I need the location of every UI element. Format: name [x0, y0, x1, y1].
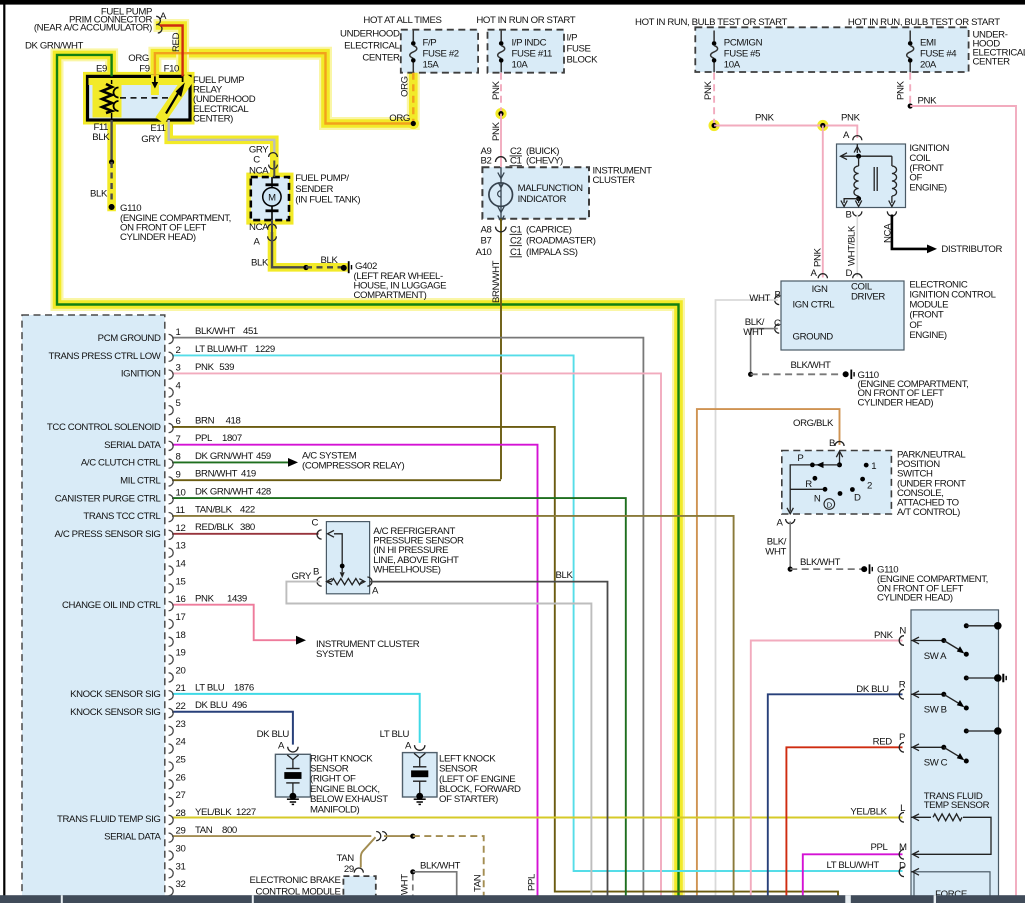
PCM pin 18 — [169, 637, 174, 646]
svg-text:13: 13 — [176, 541, 186, 552]
wire ORG dashed fuse F/P 2 leg — [412, 73, 414, 124]
electronic brake control module box — [343, 876, 375, 903]
malfunction indicator lamp DS1 — [489, 183, 513, 207]
right knock sensor pin A arc — [288, 747, 298, 752]
svg-text:PCM/IGN: PCM/IGN — [724, 38, 763, 49]
svg-text:ENGINE): ENGINE) — [909, 182, 947, 193]
svg-text:22: 22 — [176, 701, 186, 712]
right knock sensor internals — [287, 755, 298, 760]
svg-text:E9: E9 — [96, 64, 107, 75]
PCM pin 12 — [169, 530, 174, 539]
svg-text:GRY: GRY — [292, 571, 312, 582]
svg-text:PNK: PNK — [491, 121, 502, 141]
svg-text:P: P — [797, 453, 803, 464]
wire pin29 TAN 800 — [172, 835, 371, 837]
wire WHT/BLK coil B to EICM D — [856, 215, 858, 277]
park/neutral switch pin A arc — [786, 519, 795, 524]
svg-text:21: 21 — [176, 683, 186, 694]
wire pin22 DK BLU 496 — [172, 712, 293, 745]
svg-text:TRANS FLUID TEMP SIG: TRANS FLUID TEMP SIG — [57, 814, 160, 825]
underhood electrical center box fuses 5 and 4 — [695, 27, 968, 72]
PCM pin 1 — [169, 334, 174, 343]
PCM pin 4 — [169, 388, 174, 397]
PCM connector box — [22, 315, 165, 903]
wire BLK/WHT EBCM splice — [410, 869, 415, 874]
PCM pin 23 — [169, 726, 174, 735]
svg-text:KNOCK SENSOR SIG: KNOCK SENSOR SIG — [70, 707, 160, 718]
svg-text:I/P: I/P — [567, 33, 578, 44]
svg-text:TCC CONTROL SOLENOID: TCC CONTROL SOLENOID — [47, 422, 161, 433]
svg-text:SERIAL DATA: SERIAL DATA — [104, 440, 161, 451]
svg-text:PNK: PNK — [703, 80, 714, 100]
PCM pin 6 — [169, 423, 174, 432]
svg-text:BLK/WHT: BLK/WHT — [195, 326, 236, 337]
svg-text:C1: C1 — [510, 224, 522, 235]
A/C pressure sensor pin B arc — [317, 577, 322, 586]
ground G110 park neutral — [861, 566, 867, 572]
park/neutral switch internals S1 — [839, 452, 841, 465]
svg-text:3: 3 — [176, 363, 181, 374]
PCM pin 27 — [169, 797, 174, 806]
highlight relay F11 ground path — [107, 120, 116, 207]
svg-text:23: 23 — [176, 719, 186, 730]
park/neutral position switch box — [782, 451, 892, 515]
I/P fuse block box FUSE 11 — [488, 30, 565, 73]
svg-text:FUSE #11: FUSE #11 — [512, 49, 553, 60]
svg-text:R: R — [805, 479, 812, 490]
EICM pin B arc — [775, 295, 780, 304]
svg-text:PNK: PNK — [491, 80, 502, 100]
svg-text:PNK: PNK — [195, 362, 215, 373]
svg-text:2: 2 — [867, 480, 872, 491]
svg-text:WHT/BLK: WHT/BLK — [847, 225, 858, 266]
svg-text:1229: 1229 — [255, 344, 275, 355]
svg-text:C1: C1 — [510, 156, 522, 167]
svg-text:422: 422 — [240, 504, 255, 515]
A/C pressure sensor R2 internals — [328, 530, 335, 537]
svg-text:18: 18 — [176, 630, 186, 641]
wire TAN to EBCM pin 29 — [361, 837, 376, 867]
svg-text:NCA: NCA — [883, 223, 894, 243]
svg-text:WHT: WHT — [749, 293, 770, 304]
svg-text:F10: F10 — [164, 64, 179, 75]
svg-text:NCA: NCA — [249, 165, 269, 176]
svg-text:428: 428 — [256, 486, 271, 497]
svg-text:PNK: PNK — [918, 96, 938, 107]
svg-text:B: B — [313, 567, 319, 578]
PCM pin 19 — [169, 655, 174, 664]
svg-text:ELECTRONIC BRAKE: ELECTRONIC BRAKE — [250, 875, 341, 886]
svg-text:M: M — [899, 842, 907, 853]
PCM pin 13 — [169, 548, 174, 557]
svg-text:380: 380 — [240, 522, 255, 533]
svg-text:SW B: SW B — [924, 705, 947, 716]
relay switch blade to F10 — [166, 90, 180, 114]
switch SW B — [911, 693, 944, 695]
svg-text:TAN/BLK: TAN/BLK — [195, 504, 233, 515]
svg-text:IGN: IGN — [812, 284, 828, 295]
highlight ORG wire path — [155, 53, 413, 123]
svg-text:OF STARTER): OF STARTER) — [439, 794, 498, 805]
svg-text:29: 29 — [176, 826, 186, 837]
svg-text:539: 539 — [219, 362, 234, 373]
svg-text:N: N — [899, 626, 906, 637]
svg-text:FUSE #2: FUSE #2 — [423, 49, 459, 60]
svg-text:IGN CTRL: IGN CTRL — [793, 299, 836, 310]
svg-text:MIL CTRL: MIL CTRL — [120, 475, 161, 486]
svg-text:A: A — [405, 740, 412, 751]
svg-text:INDICATOR: INDICATOR — [518, 194, 567, 205]
svg-text:29: 29 — [344, 864, 354, 875]
wire pin28 YEL/BLK 1227 — [172, 817, 903, 819]
svg-text:A/C CLUTCH CTRL: A/C CLUTCH CTRL — [81, 458, 162, 469]
connector C2/C1 arcs buick-chevy — [496, 157, 507, 162]
relay switch contact from F9 — [154, 76, 156, 83]
svg-text:(COMPRESSOR RELAY): (COMPRESSOR RELAY) — [302, 460, 404, 471]
fuel pump motor M1 — [263, 188, 281, 206]
svg-text:FUSE #5: FUSE #5 — [724, 49, 760, 60]
wire ORG relay F9 to fuse splice — [155, 53, 413, 123]
svg-text:5: 5 — [176, 398, 181, 409]
svg-text:F/P: F/P — [423, 38, 437, 49]
svg-text:BRN/WHT: BRN/WHT — [491, 260, 502, 303]
svg-text:ORG: ORG — [400, 76, 411, 97]
svg-text:A: A — [810, 268, 817, 279]
wire PNK fuse 4 to right margin run — [910, 106, 1016, 896]
svg-text:A: A — [372, 586, 379, 597]
PCM pin 17 — [169, 619, 174, 628]
svg-text:11: 11 — [176, 505, 185, 516]
svg-text:DK BLU: DK BLU — [195, 700, 228, 711]
highlight DK GRN/WHT fuel pump feed path — [57, 55, 679, 903]
bottom window bar — [0, 895, 1025, 903]
PCM pin 28 — [169, 815, 174, 824]
svg-text:CYLINDER HEAD): CYLINDER HEAD) — [877, 593, 953, 604]
svg-text:PPL: PPL — [195, 433, 213, 444]
svg-text:BLK: BLK — [251, 257, 269, 268]
svg-text:32: 32 — [176, 879, 186, 890]
EICM pin D arc — [853, 274, 862, 279]
svg-text:LT BLU: LT BLU — [380, 729, 410, 740]
svg-text:BLK/WHT: BLK/WHT — [800, 557, 841, 568]
svg-text:BLK: BLK — [90, 189, 108, 200]
svg-text:SERIAL DATA: SERIAL DATA — [104, 832, 161, 843]
left knock sensor internals — [414, 753, 425, 758]
svg-text:8: 8 — [176, 452, 181, 463]
instrument cluster box — [482, 167, 589, 219]
svg-text:D: D — [854, 493, 861, 504]
svg-text:B7: B7 — [481, 236, 492, 247]
svg-text:LT BLU/WHT: LT BLU/WHT — [195, 344, 248, 355]
svg-text:NCA: NCA — [249, 222, 269, 233]
highlight fuel pump relay outline — [88, 76, 191, 120]
svg-text:CLUSTER: CLUSTER — [593, 175, 636, 186]
svg-text:24: 24 — [176, 737, 187, 748]
svg-text:PPL: PPL — [871, 842, 889, 853]
connector arcs fuel pump pin A — [268, 224, 277, 228]
svg-text:COMPARTMENT): COMPARTMENT) — [354, 290, 427, 301]
svg-text:DK GRN/WHT: DK GRN/WHT — [25, 41, 84, 52]
PCM pin 3 — [169, 370, 174, 379]
svg-text:(IN FUEL TANK): (IN FUEL TANK) — [295, 195, 360, 206]
PCM pin 16 — [169, 602, 174, 611]
svg-text:LT BLU: LT BLU — [195, 682, 225, 693]
EICM pin A arc — [818, 274, 827, 279]
svg-text:7: 7 — [176, 434, 181, 445]
fuse EMI FUSE 4 20A — [909, 31, 911, 42]
svg-text:BLK/WHT: BLK/WHT — [420, 860, 461, 871]
svg-text:10A: 10A — [512, 60, 529, 71]
svg-text:31: 31 — [176, 861, 186, 872]
svg-text:GRY: GRY — [141, 134, 161, 145]
svg-text:DK GRN/WHT: DK GRN/WHT — [195, 486, 254, 497]
svg-text:A: A — [776, 518, 783, 529]
svg-text:16: 16 — [176, 594, 186, 605]
svg-text:B: B — [845, 210, 851, 221]
svg-text:TRANS PRESS CTRL LOW: TRANS PRESS CTRL LOW — [49, 351, 162, 362]
svg-text:F9: F9 — [139, 64, 149, 75]
PCM pin 22 — [169, 708, 174, 717]
svg-text:B: B — [774, 290, 780, 301]
PCM pin 32 — [169, 887, 174, 896]
svg-text:TRANS TCC CTRL: TRANS TCC CTRL — [83, 511, 161, 522]
svg-text:26: 26 — [176, 772, 186, 783]
wire PNK fuse 11 dashed leg — [500, 73, 502, 114]
wire NCA coil secondary to distributor — [892, 215, 927, 249]
splice node TAN — [410, 834, 415, 839]
svg-text:A10: A10 — [476, 247, 492, 258]
left knock sensor box — [403, 753, 438, 797]
wire BLK relay F11 to G110 — [110, 120, 112, 162]
svg-text:A: A — [253, 237, 260, 248]
PCM pin 20 — [169, 673, 174, 682]
svg-text:ORG: ORG — [389, 113, 410, 124]
svg-text:9: 9 — [176, 469, 181, 480]
fuse PCM/IGN FUSE 5 10A — [713, 31, 715, 42]
svg-text:DK BLU: DK BLU — [257, 729, 290, 740]
svg-text:800: 800 — [222, 825, 237, 836]
svg-text:DK GRN/WHT: DK GRN/WHT — [195, 451, 254, 462]
splice node PNK 3 — [908, 103, 913, 108]
wire PNK to pin N — [751, 641, 903, 897]
svg-text:C: C — [311, 517, 318, 528]
svg-text:(IMPALA SS): (IMPALA SS) — [526, 247, 578, 258]
svg-text:6: 6 — [176, 416, 181, 427]
wire pin12 RED/BLK 380 — [172, 533, 319, 535]
svg-text:KNOCK SENSOR SIG: KNOCK SENSOR SIG — [70, 689, 160, 700]
svg-text:SYSTEM: SYSTEM — [316, 649, 354, 660]
svg-text:E11: E11 — [150, 123, 165, 134]
svg-text:BLK/WHT: BLK/WHT — [791, 360, 832, 371]
right knock sensor box — [275, 754, 310, 797]
svg-text:WHEELHOUSE): WHEELHOUSE) — [373, 564, 440, 575]
fuse I/P INDC FUSE 11 10A — [500, 31, 502, 42]
wire BLK fuel pump to G402 — [271, 220, 273, 232]
wire pin21 LT BLU 1876 — [172, 694, 420, 743]
svg-text:SW C: SW C — [924, 758, 948, 769]
highlight fuel pump BLK ground path — [272, 220, 344, 267]
svg-text:BLK: BLK — [556, 570, 574, 581]
svg-text:15: 15 — [176, 576, 186, 587]
svg-text:BLK: BLK — [92, 132, 110, 143]
fuel pump sender box — [251, 177, 289, 220]
svg-text:I/P INDC: I/P INDC — [512, 38, 547, 49]
svg-text:M: M — [268, 193, 276, 204]
svg-text:1876: 1876 — [234, 682, 254, 693]
svg-text:HOT IN RUN, BULB TEST OR START: HOT IN RUN, BULB TEST OR START — [848, 17, 1000, 28]
svg-text:DK BLU: DK BLU — [856, 684, 889, 695]
wire pin1 BLK/WHT 451 — [172, 338, 643, 896]
wire pin8 DK GRN/WHT 459 — [172, 461, 288, 463]
svg-text:1807: 1807 — [222, 433, 242, 444]
wire pin3 PNK 539 — [172, 373, 661, 896]
ground G110 left — [109, 204, 115, 210]
svg-text:CENTER): CENTER) — [193, 113, 233, 124]
svg-text:MALFUNCTION: MALFUNCTION — [518, 183, 584, 194]
PCM pin 29 — [169, 833, 174, 842]
svg-text:CYLINDER HEAD): CYLINDER HEAD) — [858, 398, 934, 409]
svg-text:HOT IN RUN, BULB TEST OR START: HOT IN RUN, BULB TEST OR START — [635, 17, 787, 28]
svg-text:UNDERHOOD: UNDERHOOD — [340, 29, 400, 40]
ignition coil pin A arc — [853, 136, 862, 141]
wire GRY sensor B — [286, 582, 591, 896]
relay interior highlight — [92, 78, 186, 85]
svg-text:10A: 10A — [724, 60, 741, 71]
wire BLK sensor A — [369, 582, 607, 896]
splice node PNK 2 — [820, 123, 825, 128]
svg-text:419: 419 — [241, 469, 256, 480]
inline connector TAN — [376, 832, 381, 841]
switch SW C — [911, 746, 944, 748]
malfunction indicator lamp wire exit — [498, 207, 504, 213]
fuel pump relay box — [88, 76, 191, 120]
svg-text:PNK: PNK — [813, 247, 824, 267]
svg-text:496: 496 — [232, 700, 247, 711]
svg-text:1: 1 — [176, 327, 181, 338]
svg-text:DRIVER: DRIVER — [851, 291, 885, 302]
PCM pin 25 — [169, 762, 174, 771]
wire GRY relay E11 to fuel pump — [169, 120, 275, 153]
PCM pin 9 — [169, 477, 174, 486]
svg-text:10: 10 — [176, 487, 186, 498]
svg-text:WHT: WHT — [743, 327, 764, 338]
svg-text:PNK: PNK — [195, 593, 215, 604]
svg-text:(NEAR A/C ACCUMULATOR): (NEAR A/C ACCUMULATOR) — [34, 23, 152, 34]
svg-text:459: 459 — [256, 451, 271, 462]
svg-text:PCM GROUND: PCM GROUND — [98, 333, 161, 344]
PCM pin 2 — [169, 352, 174, 361]
svg-text:28: 28 — [176, 808, 186, 819]
svg-text:HOT IN RUN OR START: HOT IN RUN OR START — [476, 15, 575, 26]
svg-text:17: 17 — [176, 612, 186, 623]
PCM pin 21 — [169, 691, 174, 700]
svg-text:418: 418 — [226, 415, 241, 426]
highlight RED wire path — [160, 26, 183, 79]
wire pin10 DK GRN/WHT 428 — [172, 498, 626, 896]
PCM pin 5 — [169, 406, 174, 415]
svg-text:30: 30 — [176, 843, 186, 854]
svg-text:A/T CONTROL): A/T CONTROL) — [897, 507, 960, 518]
svg-text:(CAPRICE): (CAPRICE) — [526, 224, 572, 235]
ignition coil box — [837, 144, 906, 208]
wire pin11 TAN/BLK 422 — [172, 516, 734, 896]
svg-text:FUSE: FUSE — [567, 44, 591, 55]
svg-text:25: 25 — [176, 754, 186, 765]
switch SW B case ground — [1002, 674, 1004, 683]
fuse F/P FUSE 2 15A — [412, 31, 414, 42]
splice node PNK cluster — [498, 111, 503, 116]
wire pin2 LT BLU/WHT 1229 — [172, 355, 903, 871]
svg-text:PNK: PNK — [896, 80, 907, 100]
svg-text:ELECTRICAL: ELECTRICAL — [344, 41, 400, 52]
highlight fuel pump sender outline — [251, 177, 289, 220]
svg-text:D: D — [899, 860, 906, 871]
svg-text:PPL: PPL — [527, 873, 538, 891]
svg-text:A8: A8 — [481, 224, 492, 235]
wire DK BLU to pin R — [768, 694, 903, 896]
wire PNK fuse 5 dashed leg — [713, 73, 715, 126]
svg-text:PNK: PNK — [841, 113, 861, 124]
svg-text:LT BLU/WHT: LT BLU/WHT — [827, 860, 880, 871]
PCM pin 30 — [169, 851, 174, 860]
wire PNK splice run to ignition coil A — [714, 126, 857, 139]
svg-text:12: 12 — [176, 523, 186, 534]
ground G402 — [341, 265, 347, 271]
PCM pin 10 — [169, 495, 174, 504]
svg-text:15A: 15A — [423, 60, 440, 71]
svg-text:GROUND: GROUND — [793, 331, 834, 342]
PCM pin 7 — [169, 441, 174, 450]
page frame border — [0, 0, 1025, 5]
PCM pin 15 — [169, 584, 174, 593]
highlight splice rings — [495, 108, 506, 119]
A/C pressure sensor pin A arc — [367, 577, 372, 586]
svg-text:HOT AT ALL TIMES: HOT AT ALL TIMES — [363, 15, 441, 26]
svg-text:(CHEVY): (CHEVY) — [526, 156, 563, 167]
svg-text:RED: RED — [873, 737, 893, 748]
svg-text:FUSE #4: FUSE #4 — [920, 49, 957, 60]
wire BRN/WHT to PCM pin 9 — [172, 479, 501, 481]
svg-text:A: A — [843, 130, 850, 141]
svg-text:B2: B2 — [481, 156, 492, 167]
electronic ignition control module box U1 — [781, 281, 904, 350]
PCM pin 26 — [169, 780, 174, 789]
wire ORG/BLK park neutral switch feed — [697, 409, 840, 896]
malfunction indicator lamp wire entry — [500, 167, 502, 225]
svg-text:TAN: TAN — [473, 874, 484, 892]
svg-text:1439: 1439 — [227, 593, 247, 604]
svg-text:RED: RED — [171, 32, 182, 52]
svg-text:TAN: TAN — [336, 853, 354, 864]
relay internal dashed link — [120, 97, 168, 99]
svg-text:R: R — [899, 680, 906, 691]
trans fluid temp sensor RT1 — [911, 816, 931, 818]
transmission switch assembly box — [911, 610, 999, 903]
svg-text:BRN/WHT: BRN/WHT — [195, 469, 238, 480]
PCM pin 24 — [169, 744, 174, 753]
force motor pin D lead — [911, 871, 914, 873]
wire PNK branch to EICM pin A — [822, 126, 824, 278]
svg-text:ORG/BLK: ORG/BLK — [793, 418, 834, 429]
wire pin6 BRN 418 — [172, 427, 838, 896]
svg-text:PNK: PNK — [755, 113, 775, 124]
wire BLK/WHT park neutral to G110 — [789, 522, 791, 570]
svg-text:SENDER: SENDER — [295, 184, 333, 195]
wire DK GRN/WHT relay E9 long highlighted run — [57, 55, 679, 896]
svg-text:CANISTER PURGE CTRL: CANISTER PURGE CTRL — [55, 493, 162, 504]
svg-text:EMI: EMI — [920, 38, 936, 49]
ignition coil secondary pin arc — [887, 211, 896, 216]
